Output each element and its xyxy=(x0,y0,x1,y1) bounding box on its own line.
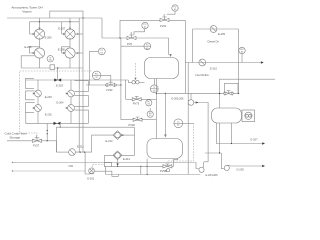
svg-text:E-206: E-206 xyxy=(45,36,52,40)
svg-text:E-202: E-202 xyxy=(45,113,52,117)
svg-text:E-203: E-203 xyxy=(56,83,63,87)
exchanger E-210 inter reflux xyxy=(199,59,206,66)
wire: E-208 inlet loop xyxy=(62,47,71,53)
wire: E-214 outlet U-bend xyxy=(105,155,115,166)
manual valve on pump header with bypass xyxy=(223,83,239,95)
wire: left U-bend brackets xyxy=(26,78,35,88)
pump G-204/206 xyxy=(199,162,218,177)
svg-text:CIR: CIR xyxy=(69,164,74,168)
wire: product line to storage via G-207 xyxy=(216,123,263,144)
wire: E-214 bottom drop xyxy=(117,158,119,164)
wire: quad vertical ties xyxy=(37,97,39,105)
wire: fan row bypass header xyxy=(29,21,79,23)
wire: right U-bend brackets xyxy=(74,81,88,92)
air cooler E-207 xyxy=(65,29,75,39)
pump G-201 with motor xyxy=(87,168,95,181)
wire: E-206 outlet loop to condensate header xyxy=(21,56,34,68)
wire: bottom collection line xyxy=(104,166,106,174)
node feed label: Atmospheric Tower OH Vapors xyxy=(11,5,42,13)
svg-text:PV6: PV6 xyxy=(127,42,132,46)
control valve PV9B on bottom draw line xyxy=(160,164,172,173)
wire: CIR long line xyxy=(12,161,196,163)
wire: drum D1 inlet drop with arrow xyxy=(168,38,170,55)
svg-text:PIC: PIC xyxy=(95,74,99,76)
svg-text:E-208: E-208 xyxy=(58,47,65,51)
wire: crude inlet xyxy=(7,140,33,142)
wire: FV92 run xyxy=(86,84,105,86)
wire: inlet from off-page to drum D-203 xyxy=(220,79,276,108)
svg-text:E-204: E-204 xyxy=(45,95,52,99)
check valve (filled) on header B xyxy=(54,78,61,81)
mixing nozzle symbol at drum boot xyxy=(128,63,144,84)
wire: pump2 outlet stub xyxy=(75,52,83,54)
wire: header drop to main run xyxy=(101,18,103,38)
instrument FC-61 xyxy=(167,5,178,14)
wire: pump G-201 suction line xyxy=(12,170,85,172)
svg-text:E-207: E-207 xyxy=(58,27,65,31)
svg-text:G-207: G-207 xyxy=(250,138,258,142)
wire: E-206 inlet loop xyxy=(29,47,39,53)
wire: drop to drum D2 inlet with arrow xyxy=(164,93,166,135)
svg-text:E-211: E-211 xyxy=(77,145,84,149)
wire: condensate header A xyxy=(21,67,83,69)
control valve FV92 xyxy=(105,82,116,92)
svg-text:Vapors: Vapors xyxy=(22,9,32,13)
wire: inter reflux riser xyxy=(187,63,189,175)
wire: riser down-leg to E-211 train xyxy=(56,141,58,152)
exchanger E-204 (bottom-right of quad) xyxy=(68,105,75,112)
wire: pump circle drops xyxy=(39,58,41,68)
wire: PV75 line xyxy=(126,98,133,100)
wire: G-204 suction jog xyxy=(196,162,199,168)
wire: G-201 suction drop from E-211 line xyxy=(85,152,90,174)
instrument FC-92 xyxy=(146,100,152,106)
control valve PV75 xyxy=(132,97,141,106)
svg-text:E-213: E-213 xyxy=(106,139,113,143)
svg-text:Inter Reflux: Inter Reflux xyxy=(196,73,210,77)
wire: E-205 inlet loop xyxy=(29,22,34,34)
instrument signal PIC92 to FV92 xyxy=(101,75,111,82)
wire: header jump-over to east vertical xyxy=(50,11,83,18)
instrument PIC-92 xyxy=(92,71,101,80)
wire: quad bottom tie-downs xyxy=(46,123,48,140)
instrument PDI-62 xyxy=(239,47,245,62)
control valve PV6 on main run xyxy=(127,32,136,46)
wire: drum D1 outlet to pump header xyxy=(155,79,157,139)
wire: fan2 outlet stub xyxy=(75,33,83,35)
exchanger E-203A (top-right of quad) xyxy=(68,90,75,97)
svg-text:FV92: FV92 xyxy=(106,88,113,92)
wire: drop from header A to check valve xyxy=(57,68,59,80)
wire: fan bank riser 2 xyxy=(69,18,71,29)
instrument LC-46 xyxy=(174,119,183,128)
svg-text:Diesel Oil: Diesel Oil xyxy=(208,40,220,44)
wire: E-213 to E-214 connector xyxy=(120,134,134,136)
trim condenser E-208 xyxy=(65,39,75,58)
instrument FR-92 xyxy=(147,108,153,117)
pump G-203 xyxy=(224,165,244,171)
air cooler E-205 xyxy=(34,29,44,39)
instrument TI-13C xyxy=(47,56,55,70)
wire: fan bank riser 1 xyxy=(39,18,41,29)
vessel: overhead accumulator drum D-201 xyxy=(145,58,179,79)
control valve FV61 xyxy=(160,14,169,28)
svg-text:E-214: E-214 xyxy=(123,157,130,161)
svg-text:G-205,206: G-205,206 xyxy=(171,97,184,101)
wire: crude riser to quad train xyxy=(42,140,57,142)
instrument signal (dashed) PT92 to FV27 xyxy=(19,71,91,136)
instrument PC-61 xyxy=(134,22,148,35)
svg-text:E-204: E-204 xyxy=(57,100,64,104)
svg-text:FV27: FV27 xyxy=(33,143,40,147)
exchanger E-209 diesel oil xyxy=(210,26,217,33)
wire: main run toward drum D1 xyxy=(102,37,169,39)
wire: PV92 line xyxy=(121,119,133,121)
instrument TI-46 below drum xyxy=(150,79,158,93)
pump G-205/206 xyxy=(171,93,208,161)
wire: G-203 discharge to battery limit xyxy=(230,165,264,167)
instrument signal dashed near G-201 xyxy=(92,165,108,168)
svg-text:G-203: G-203 xyxy=(237,168,245,172)
exchanger E-203 (top-left of quad) xyxy=(35,90,42,97)
wire: overhead vapor header xyxy=(7,17,102,19)
wire: quad bottom line xyxy=(26,112,89,123)
svg-text:E-210: E-210 xyxy=(210,66,217,70)
vessel: water drum D-203 with motor mixer xyxy=(212,108,255,123)
svg-text:E-209: E-209 xyxy=(218,32,225,36)
check valve (filled) on quad bottom line xyxy=(54,122,61,125)
svg-text:G-204,206: G-204,206 xyxy=(205,173,218,177)
exchanger E-213 xyxy=(113,131,122,140)
vessel: desalter drum D-202 xyxy=(147,139,183,159)
trim condenser E-206 xyxy=(34,39,44,58)
wire: E-211 outlet run xyxy=(57,151,69,153)
exchanger E-211 xyxy=(69,149,76,156)
instrument TC-46 xyxy=(121,43,151,50)
wire: draw line through PV9B xyxy=(105,165,163,167)
svg-text:FV61: FV61 xyxy=(160,24,167,28)
wire: long mid vertical xyxy=(120,38,122,120)
wire: diesel oil line xyxy=(193,28,239,30)
svg-text:PV9B: PV9B xyxy=(160,169,167,173)
control valve PV92 xyxy=(129,117,143,127)
wire: G-203 suction from drum D3 xyxy=(219,123,221,153)
wire: riser arrows into fans xyxy=(38,28,40,30)
instrument PT-92 xyxy=(90,48,106,85)
wire: long verticals through preheat block xyxy=(78,18,80,152)
svg-text:Storage: Storage xyxy=(10,135,21,139)
wire: condensate header B (lower) xyxy=(26,79,129,81)
svg-text:G-201: G-201 xyxy=(87,176,95,180)
svg-text:PV75: PV75 xyxy=(133,101,140,105)
wire: FV61 discharge down to pump header xyxy=(184,20,186,93)
svg-text:E-205: E-205 xyxy=(25,45,32,49)
wire: G-201 discharge xyxy=(94,171,118,176)
instrument signal LC46 to PV9B xyxy=(183,122,194,124)
svg-text:PV92: PV92 xyxy=(129,123,136,127)
wire: branch riser to FV61 xyxy=(120,20,185,38)
control valve FV27 xyxy=(33,135,42,147)
exchanger E-214 xyxy=(113,151,122,160)
wire: inter reflux line to tower xyxy=(185,62,262,64)
wire: E-207 inlet loop xyxy=(62,22,65,34)
svg-text:13C: 13C xyxy=(48,60,52,62)
exchanger E-202 (bottom-left of quad) xyxy=(35,105,42,112)
